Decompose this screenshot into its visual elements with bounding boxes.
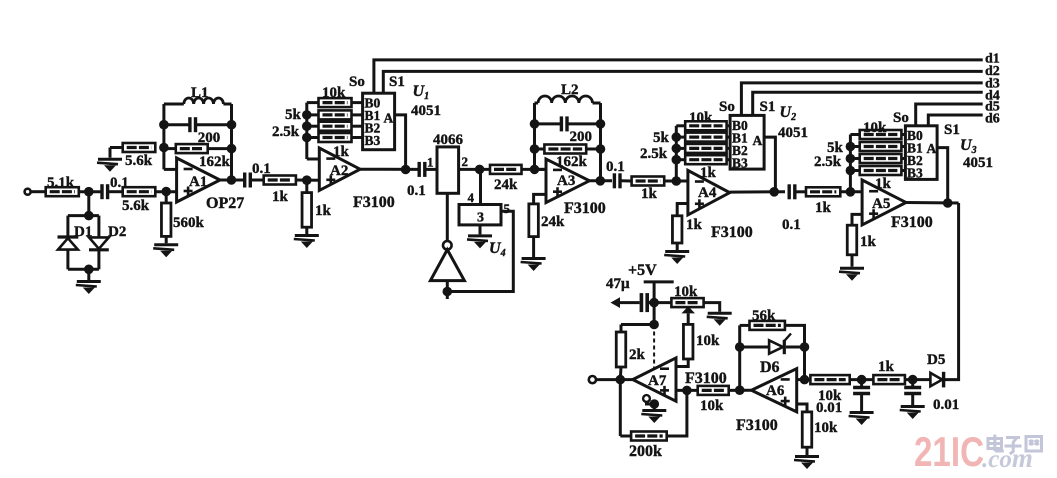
wire A2 output: [360, 168, 418, 171]
resistor 1k A5 ground: [847, 225, 857, 255]
resistor 162k A3: [544, 145, 586, 154]
svg-text:24k: 24k: [541, 214, 565, 230]
wire bank1 row0 stub: [352, 101, 363, 104]
resistor 24k to A3: [490, 165, 522, 174]
wire U1 S1 to d2: [383, 71, 982, 94]
resistor 10k A6 ground: [802, 412, 812, 447]
svg-text:162k: 162k: [199, 154, 231, 170]
wire bank2 row1 left: [676, 136, 685, 139]
svg-text:4051: 4051: [963, 155, 993, 171]
node diode top: [84, 211, 94, 221]
svg-text:56k: 56k: [752, 308, 776, 324]
svg-text:F3100: F3100: [353, 194, 395, 211]
node bank3 r2: [846, 142, 856, 152]
ground below U4: [467, 236, 492, 249]
capacitor 0.1 A2-4066: [419, 162, 425, 177]
wire 0.01a bottom lead: [860, 394, 863, 411]
A7 ground pin bubble: [643, 395, 650, 402]
node input junction: [84, 187, 94, 197]
node bank2 r4: [672, 155, 682, 165]
wire pot to ground jog: [704, 303, 720, 312]
resistor 5.6k to ground: [123, 143, 156, 152]
potentiometer 10k: [671, 298, 703, 307]
wire 200k left leg: [619, 380, 622, 436]
wire cap to 1k A3-A4: [621, 179, 632, 182]
wire 24k to A3 node: [522, 168, 547, 171]
resistor 5.1k: [46, 187, 79, 196]
svg-text:10k: 10k: [700, 398, 724, 414]
svg-text:F3100: F3100: [891, 214, 933, 231]
node D6 left: [735, 342, 745, 352]
wire U4 ground stub: [479, 225, 482, 235]
node 4066 output: [475, 165, 485, 175]
resistor 1k A1-A2: [264, 176, 296, 185]
svg-text:0.1: 0.1: [407, 183, 426, 199]
resistor 5.6k input: [123, 187, 156, 196]
wire bank1 row3 stub: [352, 136, 363, 139]
node A1 output: [227, 175, 237, 185]
wire 10k to A7 minus: [676, 359, 688, 367]
wire A3 minus wire: [535, 168, 547, 171]
resistor bank2 5k: [685, 133, 726, 142]
resistor bank3 10k: [860, 130, 902, 139]
ground below A4 1k: [664, 252, 689, 265]
wire 162k row right: [208, 147, 232, 150]
svg-text:A: A: [384, 111, 394, 126]
wire 0.01b top lead: [911, 380, 914, 387]
wire bank3 row0 stub: [901, 133, 905, 136]
op-amp A7: [633, 358, 676, 401]
wire rail to A1 minus: [162, 148, 165, 170]
svg-text:A2: A2: [330, 163, 348, 179]
svg-text:1k: 1k: [315, 203, 332, 219]
wire 2k top stub: [620, 325, 623, 333]
ground 0.01 first: [849, 413, 874, 426]
wire A5 fb rail: [849, 135, 852, 192]
wire A7 output: [620, 378, 632, 381]
op-amp A3: [546, 159, 589, 203]
wire cap200 A3 right: [567, 122, 601, 125]
wire 56k row right: [785, 325, 805, 379]
wire +5V bar: [644, 280, 674, 283]
svg-text:F3100: F3100: [685, 370, 727, 387]
wire D1 top lead: [66, 216, 69, 237]
node A2 output: [401, 165, 411, 175]
wire D6 right lead: [786, 346, 805, 349]
node A3 rail left cap: [530, 119, 540, 129]
ground 0.01 second: [900, 407, 925, 420]
wire D1 bottom lead: [66, 250, 69, 270]
wire L1 row right: [223, 103, 231, 106]
wire A1 plus node down: [165, 192, 168, 204]
svg-text:B3: B3: [732, 156, 748, 171]
svg-text:5k: 5k: [653, 130, 670, 146]
node A3 rail right cap: [596, 119, 606, 129]
svg-text:47μ: 47μ: [606, 276, 630, 292]
wire node down to diode pair: [87, 192, 90, 216]
svg-text:10k: 10k: [863, 120, 887, 136]
resistor 10k A6 input: [810, 375, 849, 384]
wire 47u right lead: [647, 301, 654, 304]
wire cap to 4066: [426, 168, 437, 171]
wire bank1 row2 left: [307, 125, 319, 128]
op-amp A4: [688, 170, 730, 215]
resistor 162k A1: [176, 144, 208, 153]
wire cap to R5.6k: [109, 190, 123, 193]
resistor 56k: [750, 321, 785, 330]
op-amp A5: [862, 180, 906, 225]
node A4 minus input: [672, 176, 682, 186]
resistor 1k A2 ground: [302, 193, 312, 228]
wire 162k A3 left: [535, 148, 545, 151]
wire fb rail to A2 minus: [307, 158, 320, 161]
wire U1 A pin to output: [395, 115, 406, 170]
resistor 1k bottom: [873, 375, 905, 384]
capacitor 0.1 A1-A2: [245, 173, 251, 188]
wire A7 plus input: [676, 389, 698, 392]
resistor bank3 2.5k: [860, 154, 902, 163]
wire A4 fb rail: [675, 126, 678, 181]
wire A3 left rail: [533, 103, 536, 169]
svg-text:4051: 4051: [778, 125, 808, 141]
svg-text:F3100: F3100: [736, 417, 778, 434]
IC 4066 switch box: [437, 147, 459, 193]
ground below 560k: [153, 245, 178, 257]
svg-text:21IC: 21IC: [914, 428, 984, 475]
wire A3 right rail: [599, 103, 602, 181]
capacitor 200 A1: [190, 117, 196, 132]
node A3 minus input: [530, 165, 540, 175]
resistor 24k A3 ground: [529, 204, 539, 237]
watermark chinese char dian: [988, 435, 1004, 452]
resistor bank3 1k: [860, 166, 902, 175]
resistor 1k A3-A4: [632, 177, 665, 186]
wire D2 top lead: [97, 216, 100, 237]
wire U1 So to d1: [374, 60, 983, 94]
wire cap to 1k A4-A5: [796, 190, 806, 193]
resistor 1k A4 ground: [672, 216, 682, 243]
wire bank2 row0 left: [676, 124, 685, 127]
svg-text:10k: 10k: [674, 284, 698, 300]
svg-text:10k: 10k: [689, 110, 713, 126]
wire diode bottom rail: [68, 268, 99, 271]
wire input to R 5.1k: [31, 190, 46, 193]
IC U3 4051 box: [905, 126, 937, 180]
wire 4066 pin2 out: [459, 168, 490, 171]
wire A2 node down: [305, 180, 308, 192]
wire U4 pin4: [479, 169, 482, 204]
wire 1k to D5: [905, 378, 931, 381]
svg-text:L1: L1: [191, 85, 209, 101]
resistor 2k: [616, 332, 626, 367]
node A4 output: [769, 187, 779, 197]
resistor 560k: [161, 203, 171, 236]
svg-text:200: 200: [570, 129, 593, 145]
node A3 rail left 162k: [530, 144, 540, 154]
capacitor 47u polarity arrow: [611, 297, 621, 308]
node A3 rail right 162k: [596, 144, 606, 154]
diode D5: [930, 372, 943, 388]
wire cap200 row left: [164, 123, 190, 126]
wire A1 minus input: [164, 168, 177, 171]
watermark chinese char wang: [1026, 437, 1042, 452]
svg-text:.com: .com: [982, 443, 1033, 473]
svg-text:A1: A1: [189, 174, 207, 190]
svg-text:A7: A7: [648, 373, 667, 389]
svg-text:F3100: F3100: [564, 200, 606, 217]
wire 560k to ground: [165, 236, 168, 243]
svg-text:2.5k: 2.5k: [272, 124, 300, 140]
op-amp A2: [319, 148, 360, 190]
wire R5.6k to A1 plus node: [155, 190, 176, 193]
wire 1k to ground A2: [305, 227, 308, 234]
wire 0.01b bottom lead: [911, 394, 914, 405]
wire 2k row left: [621, 323, 654, 326]
svg-text:4051: 4051: [411, 103, 441, 119]
output terminal: [589, 376, 596, 383]
wire U2 S1 to d4: [753, 92, 983, 116]
node A1 plus input: [161, 187, 171, 197]
capacitor 200 A3: [561, 116, 567, 131]
ground below A3 24k: [521, 259, 546, 272]
wire gnd5.6k lead: [110, 146, 123, 149]
wire A1 output: [220, 179, 245, 182]
ground at A1 5.6k: [97, 159, 122, 172]
diode D6: [769, 334, 791, 355]
wire bank2 row2 stub: [727, 147, 731, 150]
wire bank2 row0 stub: [727, 124, 731, 127]
wire cap to 1k: [251, 179, 263, 182]
wire 1k A5 to ground: [851, 255, 854, 267]
svg-text:A6: A6: [766, 383, 785, 399]
node +5V cap junction: [649, 298, 659, 308]
svg-text:10k: 10k: [814, 420, 838, 436]
svg-text:3: 3: [477, 211, 484, 226]
wire A7 power feed: [653, 325, 655, 369]
svg-text:0.1: 0.1: [782, 217, 801, 233]
wire D6 left lead: [740, 346, 769, 349]
svg-text:5: 5: [504, 201, 511, 216]
wire cap200 A3 left: [535, 122, 562, 125]
svg-text:D6: D6: [760, 359, 780, 376]
wire 1k to A2 node: [296, 179, 319, 182]
svg-text:5.6k: 5.6k: [125, 153, 153, 169]
inverter bubble: [443, 241, 452, 250]
svg-text:A: A: [927, 141, 937, 156]
wire 162k row left: [164, 147, 176, 150]
inverter triangle: [430, 250, 464, 281]
node A2 plus input: [302, 175, 312, 185]
resistor bank1 5k: [319, 110, 352, 119]
svg-text:B3: B3: [907, 166, 923, 181]
wire bank3 row3 left: [850, 169, 859, 172]
wire 200k to A7 plus: [667, 390, 687, 436]
ground below A6 10k: [794, 457, 819, 470]
wire bank2 row3 stub: [727, 158, 731, 161]
svg-text:F3100: F3100: [711, 224, 753, 241]
wire cap200 row right: [196, 123, 232, 126]
resistor 200k: [631, 432, 667, 441]
wire 162k A3 right: [586, 148, 600, 151]
wire L2 row left: [535, 102, 539, 105]
svg-text:24k: 24k: [494, 177, 518, 193]
diode D2: [89, 237, 109, 249]
diode D1: [58, 237, 79, 250]
wire bank1 row2 stub: [352, 125, 363, 128]
svg-text:D1: D1: [74, 224, 92, 240]
wire 1k to A5 node: [840, 190, 862, 193]
svg-text:B3: B3: [365, 133, 381, 148]
svg-text:A4: A4: [698, 185, 717, 201]
node A1 rail left cap row: [159, 120, 169, 130]
svg-text:2.5k: 2.5k: [814, 154, 842, 170]
wire 1k A4 to ground: [676, 243, 679, 250]
ground right of pot: [707, 313, 732, 326]
svg-text:0.1: 0.1: [606, 159, 625, 175]
svg-text:4066: 4066: [433, 132, 464, 148]
potentiometer wiper arrow: [682, 306, 696, 313]
svg-text:2k: 2k: [629, 347, 646, 363]
wire 1k to A4 node: [664, 180, 688, 183]
resistor bank1 1k: [319, 133, 352, 142]
node inverter output: [443, 287, 453, 297]
wire U3 S1 to d6: [928, 115, 982, 127]
wire bank2 row3 left: [676, 158, 685, 161]
IC U4 box: [459, 205, 501, 225]
resistor bank2 10k: [685, 121, 726, 130]
svg-text:5k: 5k: [285, 107, 302, 123]
wire A5 output down to D5: [945, 203, 959, 380]
wire 56k row left: [740, 324, 750, 327]
wire U3 So to d5: [916, 104, 983, 127]
svg-text:560k: 560k: [173, 215, 205, 231]
ground below diodes: [76, 282, 101, 295]
wire inverter out stub: [446, 281, 449, 299]
wire bank1 row1 left: [307, 113, 319, 116]
node A5 minus input: [846, 187, 856, 197]
wire A5 output: [906, 201, 959, 205]
svg-text:5.1k: 5.1k: [47, 175, 75, 191]
wire 47u left lead: [618, 301, 639, 304]
ground below A2 1k: [294, 236, 319, 249]
svg-text:200k: 200k: [629, 443, 662, 460]
node A7 ground pin: [650, 399, 660, 409]
wire A5 plus jog: [852, 214, 862, 225]
svg-text:1k: 1k: [815, 200, 832, 216]
wire 10k to A6 out node: [729, 389, 752, 392]
svg-text:D2: D2: [108, 224, 126, 240]
svg-text:D5: D5: [927, 352, 945, 368]
capacitor 0.1 A3-A4: [614, 173, 620, 188]
svg-text:2.5k: 2.5k: [640, 146, 668, 162]
node 0.01 first: [857, 375, 867, 385]
wire U3 A pin to output: [937, 148, 948, 203]
svg-text:A5: A5: [872, 196, 890, 212]
wire node to pot: [654, 301, 671, 304]
node D6 right: [800, 342, 810, 352]
wire bank3 row3 stub: [901, 169, 905, 172]
node A1 rail right 162k row: [227, 144, 237, 154]
wire A2 fb rail: [305, 103, 308, 159]
wire 2k bottom stub: [619, 367, 623, 380]
svg-text:L2: L2: [561, 82, 579, 98]
ground A7 pin: [641, 411, 666, 424]
capacitor 0.1 A4-A5: [789, 184, 795, 199]
svg-text:A: A: [753, 133, 763, 148]
svg-text:S1: S1: [389, 74, 405, 90]
wire A7 ground pin: [647, 402, 655, 409]
node A1 rail left 162k row: [159, 143, 169, 153]
wire diode top rail: [68, 214, 99, 217]
node bank3 r3: [846, 154, 856, 164]
svg-text:10k: 10k: [322, 85, 346, 101]
capacitor 0.01 second: [904, 388, 921, 394]
wire A4 output: [730, 190, 785, 193]
capacitor 47u: [641, 293, 647, 312]
node bank1 r3: [302, 121, 312, 131]
svg-text:So: So: [349, 74, 365, 90]
wire A6 minus input: [797, 378, 811, 381]
inductor L1: [184, 98, 224, 104]
inductor L2: [538, 96, 592, 103]
node A6 output: [735, 385, 745, 395]
wire 10k to 0.01 node: [850, 378, 874, 381]
wire bank3 row0 left: [850, 133, 859, 136]
wire bank1 row0 left: [307, 101, 319, 104]
svg-text:10k: 10k: [696, 333, 720, 349]
svg-text:1k: 1k: [641, 186, 658, 202]
svg-text:2: 2: [462, 154, 469, 169]
node A5 output: [943, 198, 953, 208]
wire rail to 2k row: [653, 303, 656, 325]
node bank1 r2: [302, 110, 312, 120]
svg-text:0.01: 0.01: [933, 397, 959, 413]
wire L1 row left: [164, 103, 184, 106]
ground below A5 1k: [839, 268, 864, 281]
svg-text:+5V: +5V: [628, 262, 657, 279]
wire A6 plus jog: [797, 404, 807, 412]
wire A6 fb left rail: [738, 325, 741, 390]
wire D2 bottom lead: [97, 250, 100, 269]
wire U4 pin5 to inverter out: [447, 211, 513, 291]
resistor bank2 2.5k: [685, 144, 726, 153]
wire A3 plus jog: [534, 194, 546, 204]
node bank1 r4: [302, 133, 312, 143]
node A7 output: [616, 375, 626, 385]
input terminal: [25, 189, 31, 195]
resistor 10k wiper: [683, 324, 693, 359]
resistor bank2 1k: [685, 155, 726, 164]
resistor 10k A7-A6: [698, 386, 729, 395]
wire 4066 to inverter: [446, 193, 449, 241]
capacitor 0.1 input: [102, 184, 108, 199]
svg-text:OP27: OP27: [206, 195, 244, 212]
node diode bottom: [84, 265, 94, 275]
svg-text:So: So: [719, 99, 735, 115]
wire 10k A6 to ground: [806, 447, 809, 455]
node A1 rail right cap row: [227, 120, 237, 130]
wire A1 left rail: [162, 104, 165, 148]
node bank2 r3: [672, 144, 682, 154]
wire bank3 row2 left: [850, 157, 859, 160]
svg-text:4: 4: [468, 190, 475, 205]
wire bank3 row1 stub: [901, 145, 905, 148]
node A6 minus: [800, 375, 810, 385]
svg-text:A3: A3: [557, 173, 575, 189]
wire gnd5.6k down: [109, 148, 112, 158]
resistor bank3 5k: [860, 142, 902, 151]
IC U1 4051 box: [363, 93, 395, 150]
